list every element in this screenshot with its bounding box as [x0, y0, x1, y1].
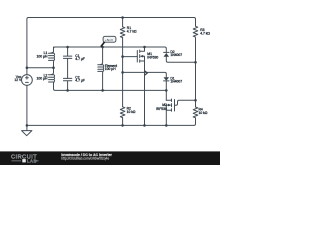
wire M1 source down to ground rail: [144, 61, 146, 125]
wire M2 source to ground rail: [165, 110, 167, 125]
junction node dot ground left: [26, 124, 29, 127]
wire R1 column vertical: [122, 18, 124, 126]
svg-text:12 V: 12 V: [14, 78, 22, 82]
diode D2 (1N4007): [164, 51, 169, 54]
diode D1 (1N4007): [164, 80, 169, 82]
wire right column R3 to gate2 node: [195, 38, 197, 107]
junction node dot M1 source rail: [143, 124, 146, 127]
wire gate1 stub: [123, 56, 138, 58]
wire gate1 bus to D1: [123, 72, 167, 77]
svg-text:LAB: LAB: [27, 158, 37, 163]
resistor R4: [193, 107, 198, 118]
inductor L1: [49, 47, 55, 68]
junction node dot M2 source rail: [165, 124, 168, 127]
svg-text:100 µH: 100 µH: [37, 77, 48, 81]
junction node dot C2-busB: [66, 89, 69, 92]
wire chevron current marker: [145, 71, 148, 75]
junction node dot Element-busB: [101, 89, 104, 92]
resistor R3: [193, 25, 198, 37]
wire D2 anode to right column: [166, 57, 195, 63]
junction node dot center tap left: [26, 66, 29, 69]
junction node dot R1 top: [121, 16, 124, 19]
svg-text:10 kΩ: 10 kΩ: [127, 110, 136, 114]
wire ground rail: [27, 118, 196, 125]
svg-text:4.7 µF: 4.7 µF: [75, 79, 85, 83]
transistor M1 body arrow: [140, 55, 143, 58]
wire node A bus: [54, 47, 167, 52]
wire center tap bus: [27, 67, 54, 69]
Vcc minus sign: [26, 81, 29, 83]
svg-text:100 µH: 100 µH: [105, 67, 116, 71]
wire Vcc source bottom to ground rail: [26, 85, 28, 130]
junction node dot C1-busA: [66, 46, 69, 49]
transistor M2 body arrow: [168, 104, 171, 107]
wire gate2 path: [175, 100, 196, 105]
junction node dot M1 drain: [143, 46, 146, 49]
junction node dot D1-M2 drain: [165, 89, 168, 92]
svg-text:IRF530: IRF530: [156, 107, 167, 111]
wire top rail: [28, 18, 195, 26]
junction node dot Element-busA: [101, 46, 104, 49]
transistor M1 (IRF530): [137, 47, 144, 62]
svg-text:4.7 kΩ: 4.7 kΩ: [127, 29, 137, 33]
junction node dot D2 anode right: [194, 61, 197, 64]
svg-text:1N4007: 1N4007: [170, 53, 182, 57]
resistor R2: [120, 107, 125, 118]
capacitor C1: [63, 47, 71, 78]
diode D2 triangle: [164, 53, 170, 57]
junction node dot gate1-D1 bus: [121, 71, 124, 74]
diode D1 triangle: [164, 77, 170, 81]
footer bar: [0, 151, 220, 165]
junction node dot R2 bottom: [121, 124, 124, 127]
voltage source Vcc circle: [22, 75, 33, 86]
svg-text:http://circuitlab.com/c/8bw5t2: http://circuitlab.com/c/8bw5t2q4e: [61, 157, 109, 161]
capacitor C2: [63, 78, 71, 90]
svg-text:IRF530: IRF530: [147, 55, 158, 59]
wire left vertical from rail to Vcc source: [27, 18, 29, 75]
svg-text:10 kΩ: 10 kΩ: [199, 111, 208, 115]
inductor L2: [49, 68, 55, 84]
node flag: [101, 36, 116, 46]
svg-text:4.7 µF: 4.7 µF: [75, 57, 85, 61]
svg-text:1N4007: 1N4007: [170, 80, 182, 84]
svg-text:4.7 kΩ: 4.7 kΩ: [200, 32, 210, 36]
junction node dot center tap L: [52, 66, 55, 69]
svg-text:+5mV: +5mV: [105, 38, 114, 42]
junction node dot gate1 tap: [121, 55, 124, 58]
svg-text:100 µH: 100 µH: [37, 54, 48, 58]
Vcc plus sign: [26, 76, 29, 79]
resistor R1: [120, 27, 125, 38]
wire node B bus: [54, 82, 167, 90]
inductor Element: [98, 47, 104, 90]
transistor M2 (IRF530): [166, 99, 174, 111]
wire M2 drain vertical: [165, 81, 167, 100]
ground: [22, 131, 32, 136]
junction node dot gate2: [194, 99, 197, 102]
